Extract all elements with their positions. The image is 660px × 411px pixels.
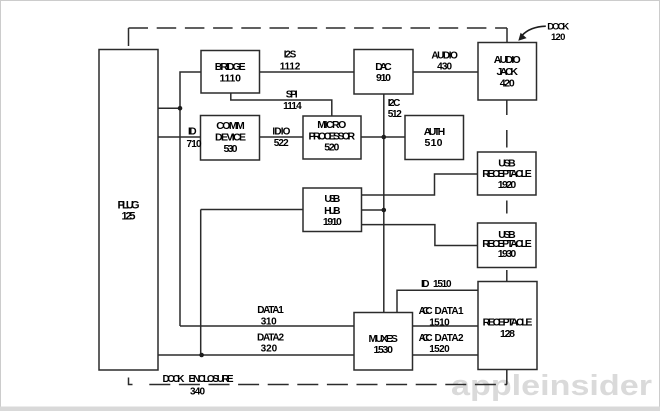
box COMM DEVICE 530 bbox=[201, 116, 260, 161]
dock enclosure bottom-left corner stub bbox=[129, 378, 133, 385]
svg-text:530: 530 bbox=[224, 143, 238, 155]
svg-text:125: 125 bbox=[122, 210, 136, 222]
box BRIDGE 1110 bbox=[201, 51, 260, 94]
label BRIDGE 1110 bbox=[215, 61, 246, 84]
svg-text:1930: 1930 bbox=[498, 248, 517, 260]
svg-text:522: 522 bbox=[274, 138, 289, 149]
svg-text:1510: 1510 bbox=[429, 317, 450, 328]
wire ID 710 bbox=[158, 136, 201, 138]
svg-text:IDIO: IDIO bbox=[272, 126, 290, 137]
wire ACC DATA2 bbox=[413, 354, 479, 356]
svg-text:BRIDGE: BRIDGE bbox=[215, 61, 246, 73]
svg-text:520: 520 bbox=[324, 142, 339, 154]
dock enclosure dashed top bbox=[129, 27, 508, 29]
svg-text:1520: 1520 bbox=[429, 344, 450, 355]
dock enclosure dashed bottom bbox=[149, 384, 507, 386]
label ACC DATA2 1520 bbox=[419, 333, 464, 355]
svg-text:appleinsider: appleinsider bbox=[451, 370, 652, 402]
label AUDIO 430 bbox=[431, 51, 458, 73]
label ID 1510 bbox=[421, 279, 452, 290]
svg-text:COMM: COMM bbox=[216, 120, 245, 132]
svg-text:710: 710 bbox=[187, 139, 202, 150]
wire I2S 1112 bbox=[260, 71, 355, 73]
svg-text:340: 340 bbox=[190, 387, 205, 398]
svg-text:1112: 1112 bbox=[280, 61, 301, 72]
box AUTH 510 bbox=[405, 116, 464, 160]
svg-text:ENCLOSURE: ENCLOSURE bbox=[189, 374, 234, 385]
label SPI 1114 bbox=[283, 90, 302, 113]
box DAC 910 bbox=[354, 50, 413, 95]
wire I2C vertical bbox=[383, 94, 385, 313]
svg-text:AUDIO: AUDIO bbox=[431, 51, 458, 62]
svg-text:I2C: I2C bbox=[388, 98, 401, 109]
svg-text:RECEPTACLE: RECEPTACLE bbox=[483, 316, 533, 328]
svg-text:AUDIO: AUDIO bbox=[494, 54, 521, 66]
svg-text:SPI: SPI bbox=[286, 90, 298, 101]
wire SPI 1114 bbox=[231, 93, 332, 116]
svg-text:ID: ID bbox=[188, 126, 197, 137]
svg-text:120: 120 bbox=[551, 32, 566, 43]
svg-text:USB: USB bbox=[324, 193, 340, 205]
svg-text:1114: 1114 bbox=[283, 101, 302, 112]
wire vertical x200.7 bbox=[200, 210, 202, 356]
box MUXES 1530 bbox=[354, 313, 413, 371]
svg-text:DATA1: DATA1 bbox=[435, 306, 464, 317]
wire RECEPTACLE to border bbox=[506, 370, 508, 385]
svg-text:JACK: JACK bbox=[496, 66, 518, 78]
label PLUG 125 bbox=[118, 199, 140, 222]
junction dot DATA2 bbox=[199, 353, 204, 358]
svg-text:1110: 1110 bbox=[219, 72, 241, 84]
wire IDIO 522 bbox=[260, 136, 304, 138]
svg-text:1910: 1910 bbox=[323, 216, 342, 228]
label DATA2 320 bbox=[257, 332, 284, 354]
label DOCK ENCLOSURE 340 bbox=[163, 374, 234, 398]
label DATA1 310 bbox=[257, 305, 284, 328]
label MUXES 1530 bbox=[368, 333, 398, 356]
svg-text:430: 430 bbox=[437, 61, 452, 72]
label AUTH 510 bbox=[424, 126, 446, 149]
svg-text:510: 510 bbox=[425, 137, 443, 149]
box USB HUB 1910 bbox=[303, 188, 362, 232]
svg-text:310: 310 bbox=[261, 316, 277, 327]
svg-text:128: 128 bbox=[500, 328, 515, 340]
label DOCK 120 bbox=[547, 21, 569, 43]
svg-text:DOCK: DOCK bbox=[547, 21, 569, 32]
box USB RECEPTACLE 1930 bbox=[478, 223, 537, 268]
svg-text:420: 420 bbox=[500, 78, 515, 90]
wire AUDIO 430 bbox=[413, 71, 478, 73]
svg-text:DATA2: DATA2 bbox=[257, 332, 284, 343]
wire ID 1510 bbox=[397, 290, 478, 312]
box RECEPTACLE 128 bbox=[478, 282, 537, 370]
label ID 710 bbox=[187, 126, 202, 150]
svg-text:1510: 1510 bbox=[433, 279, 452, 290]
label USB HUB 1910 bbox=[323, 193, 342, 228]
label I2C 512 bbox=[388, 98, 402, 120]
box PLUG 125 bbox=[99, 50, 158, 371]
box MICRO PROCESSOR 520 bbox=[303, 116, 361, 159]
wire vertical bus x180 BRIDGE to DATA1 bbox=[180, 72, 201, 326]
label MICRO PROCESSOR 520 bbox=[309, 119, 356, 153]
label USB RECEPTACLE 1920 bbox=[482, 157, 532, 191]
label IDIO 522 bbox=[272, 126, 290, 149]
wire hub to I2C node bbox=[362, 209, 384, 211]
box USB RECEPTACLE 1920 bbox=[478, 152, 537, 195]
wire hub left bbox=[201, 209, 303, 211]
arrow DOCK pointer bbox=[518, 26, 546, 41]
dock enclosure top-left corner stub bbox=[128, 28, 130, 46]
svg-text:1530: 1530 bbox=[373, 344, 393, 356]
label COMM DEVICE 530 bbox=[215, 120, 246, 155]
wire DATA2 320 bbox=[158, 354, 354, 356]
label ACC DATA1 1510 bbox=[419, 306, 464, 328]
junction dot I2C/MICRO bbox=[382, 135, 387, 140]
svg-text:DEVICE: DEVICE bbox=[215, 132, 246, 144]
wire ACC DATA1 bbox=[413, 325, 479, 327]
wire MICRO to AUTH bbox=[361, 136, 405, 138]
svg-text:DOCK: DOCK bbox=[163, 374, 186, 385]
svg-text:ID: ID bbox=[421, 279, 430, 290]
svg-text:ACC: ACC bbox=[419, 333, 433, 344]
svg-text:DATA1: DATA1 bbox=[257, 305, 284, 316]
junction dot I2C/HUB bbox=[382, 208, 387, 213]
svg-text:ACC: ACC bbox=[419, 306, 433, 317]
svg-text:DATA2: DATA2 bbox=[435, 333, 464, 344]
wire 1930 to RECEPTACLE bbox=[506, 270, 508, 283]
label AUDIO JACK 420 bbox=[494, 54, 521, 89]
svg-text:910: 910 bbox=[376, 72, 391, 84]
wire hub to 1930 bbox=[362, 225, 478, 246]
wire PLUG to junction A bbox=[158, 107, 180, 109]
box AUDIO JACK 420 bbox=[478, 43, 537, 101]
junction dot A bbox=[178, 106, 183, 111]
svg-text:320: 320 bbox=[261, 344, 278, 355]
label DAC 910 bbox=[375, 61, 392, 84]
label I2S 1112 bbox=[280, 50, 301, 73]
wire hub to 1920 bbox=[362, 174, 478, 195]
wire DATA1 310 bbox=[180, 325, 354, 327]
label USB RECEPTACLE 1930 bbox=[482, 229, 532, 260]
svg-text:MICRO: MICRO bbox=[317, 119, 346, 131]
svg-text:I2S: I2S bbox=[284, 50, 297, 61]
label RECEPTACLE 128 bbox=[483, 316, 533, 340]
svg-text:1920: 1920 bbox=[498, 179, 517, 191]
svg-text:512: 512 bbox=[388, 109, 402, 120]
dock enclosure right vertical segments bbox=[506, 28, 508, 43]
